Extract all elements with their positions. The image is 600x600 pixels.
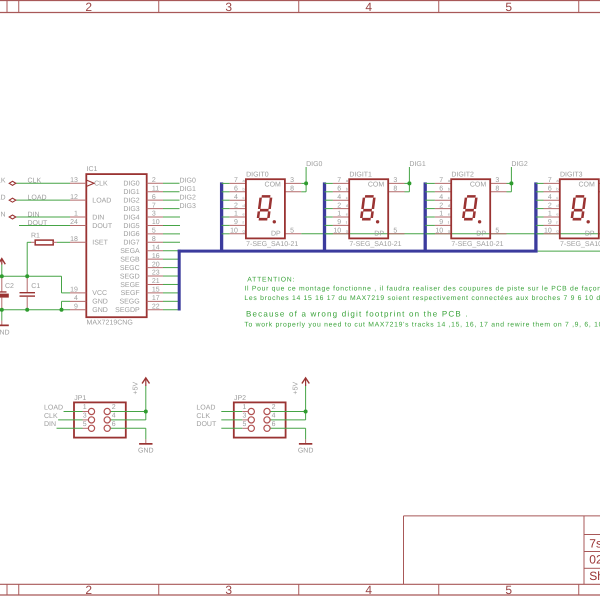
svg-text:c: c: [243, 195, 245, 200]
svg-text:Les broches 14 15 16 17 du MAX: Les broches 14 15 16 17 du MAX7219 soien…: [244, 295, 600, 302]
svg-text:3: 3: [242, 413, 246, 420]
svg-text:LOAD: LOAD: [196, 404, 215, 411]
svg-text:GND: GND: [0, 330, 10, 337]
svg-text:DOUT: DOUT: [28, 220, 49, 227]
svg-text:g: g: [243, 228, 245, 233]
svg-text:7-SEG_SA10-21: 7-SEG_SA10-21: [560, 241, 600, 248]
svg-text:8: 8: [152, 236, 156, 243]
svg-text:7-SEG_SA10-21: 7-SEG_SA10-21: [246, 241, 298, 248]
svg-text:ISET: ISET: [92, 240, 108, 247]
svg-text:DIN: DIN: [44, 421, 56, 428]
svg-text:COM: COM: [470, 181, 487, 188]
svg-text:5: 5: [393, 228, 397, 235]
svg-text:1: 1: [548, 211, 552, 218]
svg-text:DIGIT2: DIGIT2: [451, 172, 474, 179]
svg-text:d: d: [556, 203, 558, 208]
svg-text:DIG2: DIG2: [511, 161, 527, 168]
svg-text:20: 20: [152, 261, 160, 268]
svg-text:Sheet: 1/1: Sheet: 1/1: [589, 569, 600, 583]
svg-text:CLK: CLK: [0, 178, 6, 185]
svg-text:5: 5: [505, 583, 512, 597]
svg-text:COM: COM: [578, 181, 595, 188]
svg-text:C2: C2: [5, 283, 14, 290]
svg-text:DIGIT3: DIGIT3: [560, 172, 583, 179]
svg-text:DP: DP: [271, 231, 281, 238]
svg-text:CLK: CLK: [28, 178, 42, 185]
svg-text:7: 7: [439, 177, 443, 184]
svg-text:GND: GND: [92, 299, 108, 306]
svg-text:c: c: [448, 195, 450, 200]
svg-text:LOAD: LOAD: [92, 197, 111, 204]
svg-text:JP1: JP1: [74, 395, 86, 402]
svg-text:23: 23: [152, 270, 160, 277]
svg-text:6: 6: [439, 186, 443, 193]
svg-text:+5V: +5V: [133, 382, 140, 395]
svg-text:d: d: [346, 203, 348, 208]
svg-text:9: 9: [234, 219, 238, 226]
svg-text:4: 4: [365, 583, 372, 597]
svg-text:22: 22: [152, 303, 160, 310]
svg-text:7-SEG_SA10-21: 7-SEG_SA10-21: [349, 241, 401, 248]
svg-text:9: 9: [548, 219, 552, 226]
svg-text:4: 4: [365, 0, 372, 14]
svg-text:02/05/2011 10:33: 02/05/2011 10:33: [589, 553, 600, 567]
svg-text:LOAD: LOAD: [44, 404, 63, 411]
svg-text:DIG2: DIG2: [180, 195, 196, 202]
svg-text:COM: COM: [265, 181, 282, 188]
svg-text:VCC: VCC: [92, 290, 107, 297]
svg-text:DIG1: DIG1: [123, 189, 139, 196]
svg-text:10: 10: [333, 228, 341, 235]
svg-text:GND: GND: [298, 447, 314, 454]
svg-text:3: 3: [393, 177, 397, 184]
svg-text:24: 24: [70, 219, 78, 226]
svg-text:SEGF: SEGF: [121, 290, 140, 297]
svg-text:LOAD: LOAD: [28, 195, 47, 202]
svg-text:2: 2: [112, 404, 116, 411]
svg-text:DIN: DIN: [28, 211, 40, 218]
svg-text:2: 2: [234, 202, 238, 209]
svg-text:6: 6: [112, 421, 116, 428]
svg-text:2: 2: [85, 0, 92, 14]
svg-text:4: 4: [234, 194, 238, 201]
svg-text:+5V: +5V: [292, 382, 299, 395]
svg-text:2: 2: [152, 177, 156, 184]
svg-text:CLK: CLK: [44, 413, 58, 420]
svg-text:1: 1: [439, 211, 443, 218]
svg-text:CLK: CLK: [94, 181, 108, 188]
svg-text:C1: C1: [31, 283, 40, 290]
svg-text:2: 2: [439, 202, 443, 209]
svg-text:7: 7: [234, 177, 238, 184]
svg-text:6: 6: [272, 421, 276, 428]
svg-text:SEGE: SEGE: [120, 282, 140, 289]
svg-text:11: 11: [152, 185, 159, 192]
svg-text:3: 3: [290, 177, 294, 184]
svg-text:DP: DP: [374, 231, 384, 238]
svg-text:R1: R1: [31, 233, 40, 240]
svg-text:SEGDP: SEGDP: [115, 307, 140, 314]
svg-text:9: 9: [439, 219, 443, 226]
svg-text:15: 15: [152, 287, 160, 294]
svg-text:5: 5: [83, 421, 87, 428]
svg-text:JP2: JP2: [234, 395, 246, 402]
svg-text:18: 18: [70, 236, 78, 243]
svg-text:19: 19: [70, 287, 78, 294]
svg-text:DIG6: DIG6: [123, 231, 139, 238]
svg-text:6: 6: [152, 194, 156, 201]
svg-text:4: 4: [337, 194, 341, 201]
svg-text:GND: GND: [138, 447, 154, 454]
svg-text:DIN: DIN: [0, 211, 6, 218]
svg-text:2: 2: [548, 202, 552, 209]
svg-text:9: 9: [74, 303, 78, 310]
svg-text:g: g: [346, 228, 348, 233]
svg-text:8: 8: [393, 186, 397, 193]
svg-text:DIG0: DIG0: [306, 161, 322, 168]
svg-text:f: f: [346, 220, 348, 225]
svg-text:4: 4: [112, 413, 116, 420]
svg-text:7: 7: [337, 177, 341, 184]
svg-text:SEGA: SEGA: [120, 248, 140, 255]
svg-text:7segmentdisplay: 7segmentdisplay: [589, 537, 600, 551]
svg-text:3: 3: [495, 177, 499, 184]
svg-text:g: g: [448, 228, 450, 233]
svg-text:4: 4: [272, 413, 276, 420]
svg-text:5: 5: [495, 228, 499, 235]
svg-text:3: 3: [152, 211, 156, 218]
svg-text:6: 6: [234, 186, 238, 193]
svg-text:10: 10: [230, 228, 238, 235]
svg-text:SEGD: SEGD: [120, 273, 140, 280]
svg-text:21: 21: [152, 278, 160, 285]
svg-text:f: f: [243, 220, 245, 225]
svg-text:4: 4: [439, 194, 443, 201]
svg-text:c: c: [346, 195, 348, 200]
svg-text:DIGIT0: DIGIT0: [246, 172, 269, 179]
svg-text:1: 1: [83, 404, 87, 411]
svg-text:DIG1: DIG1: [180, 186, 196, 193]
svg-text:3: 3: [225, 0, 232, 14]
svg-text:2: 2: [337, 202, 341, 209]
svg-text:g: g: [556, 228, 558, 233]
svg-text:10: 10: [435, 228, 443, 235]
svg-text:d: d: [243, 203, 245, 208]
svg-text:DIG0: DIG0: [180, 178, 196, 185]
svg-text:f: f: [448, 220, 450, 225]
svg-text:8: 8: [495, 186, 499, 193]
svg-text:DOUT: DOUT: [92, 223, 113, 230]
svg-text:SEGC: SEGC: [120, 265, 140, 272]
svg-text:1: 1: [74, 211, 78, 218]
svg-text:5: 5: [290, 228, 294, 235]
svg-text:12: 12: [70, 194, 78, 201]
svg-text:5: 5: [152, 228, 156, 235]
svg-text:3: 3: [225, 583, 232, 597]
svg-text:f: f: [556, 220, 558, 225]
svg-text:Because of a wrong digit footp: Because of a wrong digit footprint on th…: [246, 310, 469, 319]
svg-text:4: 4: [74, 295, 78, 302]
svg-text:MAX7219CNG: MAX7219CNG: [87, 320, 133, 327]
svg-text:2: 2: [85, 583, 92, 597]
svg-text:8: 8: [290, 186, 294, 193]
svg-text:1: 1: [242, 404, 246, 411]
svg-text:5: 5: [242, 421, 246, 428]
svg-text:1: 1: [337, 211, 341, 218]
svg-text:To work properly you need to c: To work properly you need to cut MAX7219…: [244, 321, 600, 328]
svg-text:Il Pour que ce montage fonctio: Il Pour que ce montage fonctionne , il f…: [244, 286, 600, 293]
svg-text:6: 6: [337, 186, 341, 193]
svg-text:IC1: IC1: [87, 166, 98, 173]
svg-text:3: 3: [83, 413, 87, 420]
svg-text:GND: GND: [92, 307, 108, 314]
svg-text:SEGB: SEGB: [120, 256, 140, 263]
svg-text:SEGG: SEGG: [119, 299, 139, 306]
svg-text:DIN: DIN: [92, 214, 104, 221]
svg-text:DP: DP: [585, 231, 595, 238]
svg-text:d: d: [448, 203, 450, 208]
svg-text:4: 4: [548, 194, 552, 201]
svg-text:2: 2: [272, 404, 276, 411]
svg-text:DIG3: DIG3: [123, 206, 139, 213]
svg-text:DOUT: DOUT: [196, 421, 217, 428]
svg-text:7: 7: [152, 202, 156, 209]
svg-text:DIG2: DIG2: [123, 197, 139, 204]
svg-text:DIG3: DIG3: [180, 203, 196, 210]
svg-text:DIGIT1: DIGIT1: [349, 172, 372, 179]
svg-text:c: c: [556, 195, 558, 200]
svg-text:DIG1: DIG1: [409, 161, 425, 168]
svg-text:ATTENTION:: ATTENTION:: [247, 276, 295, 283]
svg-text:7: 7: [548, 177, 552, 184]
svg-text:5: 5: [505, 0, 512, 14]
svg-text:DIG7: DIG7: [123, 240, 139, 247]
svg-text:17: 17: [152, 295, 160, 302]
svg-text:LOAD: LOAD: [0, 195, 6, 202]
svg-text:16: 16: [152, 253, 160, 260]
svg-text:CLK: CLK: [196, 413, 210, 420]
svg-text:DIG4: DIG4: [123, 214, 139, 221]
svg-text:DIG5: DIG5: [123, 223, 139, 230]
svg-text:10: 10: [544, 228, 552, 235]
svg-text:10: 10: [152, 219, 160, 226]
svg-text:COM: COM: [368, 181, 385, 188]
svg-text:DP: DP: [476, 231, 486, 238]
svg-text:14: 14: [152, 244, 160, 251]
svg-text:7-SEG_SA10-21: 7-SEG_SA10-21: [451, 241, 503, 248]
svg-text:13: 13: [70, 177, 78, 184]
svg-text:DIG0: DIG0: [123, 181, 139, 188]
svg-text:9: 9: [337, 219, 341, 226]
svg-text:1: 1: [234, 211, 238, 218]
svg-text:6: 6: [548, 186, 552, 193]
